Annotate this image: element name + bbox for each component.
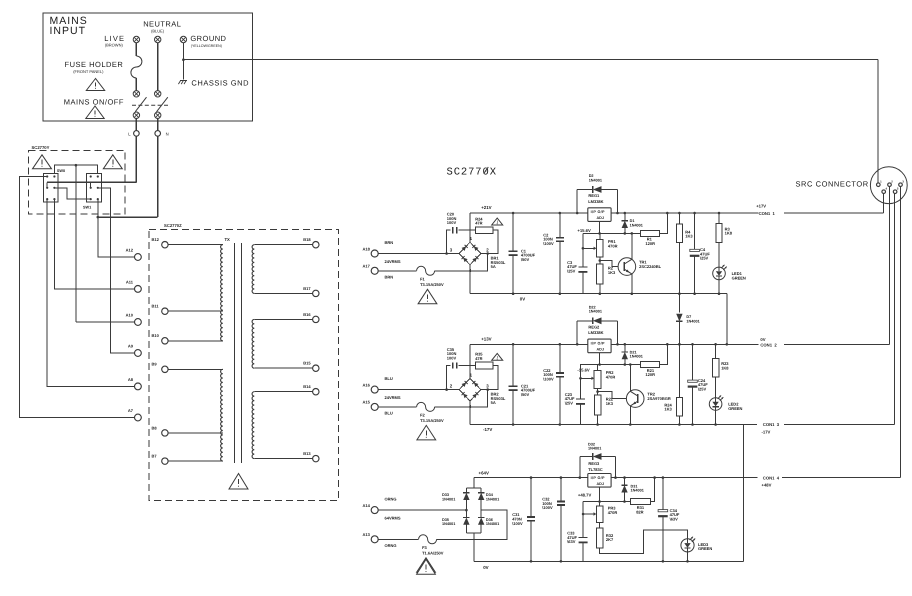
potentiometer PR2 470R xyxy=(579,370,601,388)
capacitor C2 100N xyxy=(556,212,564,295)
warning triangle fuse holder xyxy=(86,79,104,91)
wire bridge + to rail xyxy=(469,344,471,378)
terminal LIVE xyxy=(133,36,139,42)
wire B16 to secondary 2 top xyxy=(254,318,312,320)
terminal A13 xyxy=(371,536,378,543)
wire SW0 top-left to A7 xyxy=(19,176,134,417)
svg-text:A8: A8 xyxy=(128,377,134,382)
label C4 47UF \25V xyxy=(700,247,710,261)
switch terminal neutral bottom xyxy=(155,112,161,118)
label R2 1K3 xyxy=(608,266,616,275)
terminal B18 xyxy=(313,242,319,248)
terminal A15 xyxy=(371,403,378,410)
label TR1 2SC2240BL xyxy=(639,260,662,270)
wire node corner to C3 xyxy=(582,233,584,267)
potentiometer PR1 470R xyxy=(582,239,604,257)
capacitor C32 100N xyxy=(557,476,565,562)
svg-text:SC2770X: SC2770X xyxy=(447,167,497,179)
svg-text:1N4001: 1N4001 xyxy=(442,497,455,501)
wire base jog from divider xyxy=(600,261,618,267)
svg-text:470R: 470R xyxy=(608,243,618,248)
terminal B17 xyxy=(313,290,319,296)
wire SW0 bottom-right to A11 xyxy=(54,199,134,289)
svg-text:2SC2240BL: 2SC2240BL xyxy=(639,264,662,269)
svg-text:B12: B12 xyxy=(152,237,160,242)
label D2 1N4001 xyxy=(589,174,602,182)
wire R32 to LED3 jog xyxy=(600,530,688,553)
warning triangle selector right xyxy=(103,155,122,169)
label F1 T3.15A/250V xyxy=(420,276,444,287)
resistor R24 1K3 xyxy=(677,343,683,426)
wire pot to R2 xyxy=(599,257,601,264)
resistor R24 xyxy=(476,227,494,234)
svg-text:1N4001: 1N4001 xyxy=(486,497,499,501)
wire phantom 0V to CON3 riser xyxy=(743,425,745,562)
label PR2 470R xyxy=(606,370,616,379)
svg-text:\25V: \25V xyxy=(565,400,574,405)
bridge rectifier BR2 xyxy=(459,378,481,401)
terminal A14 xyxy=(371,507,378,514)
label R24 47R xyxy=(475,216,483,225)
svg-text:ADJ: ADJ xyxy=(597,347,604,351)
svg-text:I/P O/P: I/P O/P xyxy=(591,341,605,345)
svg-text:1N4001: 1N4001 xyxy=(686,319,699,323)
label C35 100N 100V xyxy=(447,347,457,361)
terminal A17 xyxy=(371,267,378,274)
diode D22 bypass xyxy=(576,317,619,345)
wire B7 to primary 2 bottom xyxy=(168,460,223,462)
svg-text:GREEN: GREEN xyxy=(728,406,742,411)
wire R3 to LED1 xyxy=(718,242,720,267)
switch blade neutral xyxy=(157,97,168,112)
wire A17 to fuse xyxy=(378,270,416,272)
svg-text:SW1: SW1 xyxy=(83,206,91,210)
svg-text:SC2770Z: SC2770Z xyxy=(164,223,182,228)
svg-text:B13: B13 xyxy=(303,451,311,456)
wire A14 to rectifier mid left xyxy=(378,509,466,511)
winding secondary 1 xyxy=(252,245,254,294)
wire N junction to SW1 xyxy=(98,216,158,218)
wire snubber cap to resistor xyxy=(459,365,476,367)
svg-text:A17: A17 xyxy=(363,264,371,269)
svg-text:-17V: -17V xyxy=(762,429,771,434)
wire REG3 ADJ pin down xyxy=(599,487,601,501)
svg-text:(BLUE): (BLUE) xyxy=(151,29,165,34)
connector pin 1 xyxy=(877,180,883,187)
wire LED1 to rail xyxy=(718,280,720,294)
wire collector to node xyxy=(629,365,631,392)
wire ADJ pin down xyxy=(599,353,601,365)
svg-text:\63V: \63V xyxy=(567,539,576,544)
label D21 1N4001 xyxy=(630,350,643,358)
svg-text:-17V: -17V xyxy=(483,427,492,432)
label R24 1K3 xyxy=(664,402,672,411)
svg-text:-15.6V: -15.6V xyxy=(577,368,590,373)
svg-text:5A: 5A xyxy=(491,400,496,405)
wire LED3 to 0V rail xyxy=(687,552,689,561)
wire snubber left leg xyxy=(447,230,451,253)
resistor R3 1K8 xyxy=(716,212,722,243)
label R31 82R xyxy=(636,505,645,514)
regulator REG2 body xyxy=(588,339,611,353)
resistor R22 xyxy=(594,395,600,415)
wire ADJ pin down xyxy=(599,221,601,233)
svg-text:B17: B17 xyxy=(303,286,311,291)
terminal B7 xyxy=(162,458,168,464)
chassis ground symbol xyxy=(178,81,187,85)
terminal A10 xyxy=(135,319,142,326)
terminal NEUTRAL xyxy=(155,36,161,42)
label TR2 2SA970BGR xyxy=(647,392,670,402)
wire node to PR3 xyxy=(599,502,601,506)
svg-text:GREEN: GREEN xyxy=(698,546,712,551)
wire SW1 middle to A9 xyxy=(98,188,135,353)
svg-text:\100V: \100V xyxy=(543,241,554,246)
wire channel1 0V to CON2 rail xyxy=(727,294,759,345)
svg-text:REG2: REG2 xyxy=(588,324,600,329)
svg-text:T3.15A/250V: T3.15A/250V xyxy=(420,282,444,287)
wire switch to N terminal xyxy=(157,118,159,130)
diode D35 1N4001 xyxy=(463,510,469,533)
wire bridge - to 0V rail xyxy=(469,265,471,294)
svg-text:+15.6V: +15.6V xyxy=(577,228,591,233)
svg-text:TL783C: TL783C xyxy=(588,467,603,472)
terminal B9 xyxy=(162,366,168,372)
label CON1 3 -17V xyxy=(762,422,780,435)
svg-text:\100V: \100V xyxy=(542,505,553,510)
wire node corner to C23 xyxy=(581,365,583,400)
LED LED3 GREEN xyxy=(681,537,695,552)
svg-text:A9: A9 xyxy=(128,344,134,349)
svg-text:1N4001: 1N4001 xyxy=(589,178,602,182)
label C1 4700UF \50V xyxy=(521,248,536,262)
terminal B14 xyxy=(313,389,319,395)
terminal B8 xyxy=(162,430,168,436)
svg-text:N: N xyxy=(166,131,169,136)
svg-text:(BROWN): (BROWN) xyxy=(105,43,124,48)
wire +64V rail xyxy=(474,477,758,479)
bridge rectifier BR1 xyxy=(459,242,481,265)
resistor R23 1K8 xyxy=(712,343,718,377)
svg-text:1K8: 1K8 xyxy=(725,231,733,236)
label R21 120R xyxy=(645,368,655,377)
svg-text:B16: B16 xyxy=(303,312,311,317)
svg-text:B7: B7 xyxy=(152,454,158,459)
svg-text:BRN: BRN xyxy=(385,274,394,279)
capacitor C22 100N xyxy=(556,343,564,426)
diode D21 xyxy=(622,343,628,366)
diode D7 1N4001 xyxy=(676,294,682,346)
fuse F2 xyxy=(417,402,435,411)
wire bridge - to 0V rail xyxy=(469,401,471,425)
wire CON1 2 to connector pin 2 xyxy=(784,343,890,345)
svg-text:1N4001: 1N4001 xyxy=(589,310,602,314)
svg-text:A12: A12 xyxy=(126,248,134,253)
wire B17 to secondary 1 bottom xyxy=(254,292,312,294)
svg-text:A16: A16 xyxy=(363,382,371,387)
wire A17 fuse to bridge ac2 xyxy=(435,254,488,271)
wire SW0 bottom-left to A8 xyxy=(47,199,134,386)
wire CON1 4 to connector pin 3 xyxy=(782,477,901,479)
wire B9 to primary 2 top xyxy=(168,368,223,370)
svg-text:I/P O/P: I/P O/P xyxy=(591,210,605,214)
resistor R2 xyxy=(597,264,603,284)
wire return rail xyxy=(470,424,727,426)
capacitor C3 47UF xyxy=(578,267,587,294)
svg-text:B8: B8 xyxy=(152,425,158,430)
svg-text:\25V: \25V xyxy=(567,268,576,273)
label C33 47UF \63V xyxy=(567,531,577,545)
svg-text:B15: B15 xyxy=(303,361,311,366)
capacitor C23 47UF xyxy=(576,399,585,425)
capacitor C31 470N xyxy=(527,476,535,562)
wire B18 to secondary 1 top xyxy=(254,244,312,246)
label PR1 470R xyxy=(608,239,618,248)
svg-text:F3: F3 xyxy=(422,545,427,550)
svg-text:\50V: \50V xyxy=(521,257,530,262)
label D36 1N4001 xyxy=(486,518,499,526)
svg-text:5A: 5A xyxy=(491,264,496,269)
wire R22 to rail xyxy=(597,415,599,425)
warning triangle channel 3 xyxy=(417,559,436,574)
wire positive rail +21V xyxy=(470,212,758,214)
winding secondary 3 xyxy=(252,392,254,459)
svg-text:MAINS ON/OFF: MAINS ON/OFF xyxy=(64,98,124,107)
wire R31 to rail xyxy=(650,478,654,502)
svg-text:NEUTRAL: NEUTRAL xyxy=(143,19,181,28)
capacitor C34 47UF xyxy=(658,476,668,562)
connector pin 5 xyxy=(893,187,899,194)
svg-text:2K7: 2K7 xyxy=(606,537,614,542)
label LED2 GREEN xyxy=(728,402,742,411)
regulator REG3 body xyxy=(588,474,611,488)
label R4 1K3 xyxy=(685,229,693,238)
wire neutral terminal to switch xyxy=(157,43,159,91)
winding primary 2 xyxy=(221,369,223,461)
label LIVE (BROWN) xyxy=(104,34,125,48)
wire live terminal to fuse xyxy=(135,43,137,56)
svg-text:1K3: 1K3 xyxy=(606,401,614,406)
svg-text:+48V: +48V xyxy=(762,482,772,487)
wire selector row SW0 to L xyxy=(47,181,136,183)
svg-text:1K3: 1K3 xyxy=(664,407,672,412)
svg-text:120R: 120R xyxy=(645,372,655,377)
switch block SW0 xyxy=(43,174,57,203)
node snubber tap xyxy=(445,252,448,255)
resistor R31 82R xyxy=(631,499,651,505)
svg-text:\50V: \50V xyxy=(521,392,530,397)
terminal A12 xyxy=(135,254,142,261)
wire A15 to fuse xyxy=(378,406,416,408)
label LED1 GREEN xyxy=(732,271,746,280)
label R3 1K8 xyxy=(725,226,733,235)
label MAINS INPUT xyxy=(50,15,88,37)
wire collector to node xyxy=(631,233,633,259)
terminal B12 xyxy=(162,242,168,248)
svg-text:CON1 2: CON1 2 xyxy=(760,342,777,347)
svg-text:+17V: +17V xyxy=(756,204,766,209)
label D35 1N4001 xyxy=(442,518,455,526)
terminal A11 xyxy=(135,286,142,293)
capacitor C24 47UF xyxy=(688,343,698,426)
LED LED2 GREEN xyxy=(709,395,723,410)
svg-text:F2: F2 xyxy=(420,412,425,417)
wire R21 to rail xyxy=(659,344,667,364)
svg-text:470R: 470R xyxy=(608,510,618,515)
wire node to pot xyxy=(597,365,599,371)
label REG3 TL783C xyxy=(588,461,603,472)
terminal L xyxy=(134,131,140,137)
transformer core xyxy=(234,243,236,463)
svg-text:CON1 1: CON1 1 xyxy=(759,211,776,216)
selector dashed box SC2770Y xyxy=(28,151,125,215)
resistor R35 xyxy=(476,362,494,369)
capacitor C35 xyxy=(453,362,457,368)
label GROUND (YELLOW/GREEN) xyxy=(190,34,226,48)
fuse F1 xyxy=(417,266,435,275)
svg-text:+21V: +21V xyxy=(481,205,491,210)
svg-text:ORNG: ORNG xyxy=(385,543,397,548)
label D22 1N4001 xyxy=(589,305,602,313)
switch block SW1 xyxy=(87,174,102,203)
label C24 47UF \25V xyxy=(698,378,708,392)
label C31 470N \100V xyxy=(512,512,523,526)
warning triangle transformer xyxy=(229,474,248,490)
svg-text:A13: A13 xyxy=(363,532,371,537)
wire base jog from divider xyxy=(598,392,627,399)
resistor R21 120R xyxy=(641,362,660,368)
winding secondary 2 xyxy=(252,319,254,368)
svg-text:\100V: \100V xyxy=(543,376,554,381)
svg-text:1N4001: 1N4001 xyxy=(442,522,455,526)
rectifier bus bottom xyxy=(466,532,481,534)
capacitor C20 xyxy=(453,227,457,233)
wire pot to R22 xyxy=(597,388,599,395)
diode D31 1N4001 xyxy=(621,476,627,503)
svg-text:\100V: \100V xyxy=(512,521,523,526)
diode D2 bypass xyxy=(576,186,619,214)
node snubber tap xyxy=(445,388,448,391)
label C34 47UF \63V xyxy=(670,508,680,522)
svg-text:100V: 100V xyxy=(447,220,457,225)
svg-text:24VRMS: 24VRMS xyxy=(385,259,401,264)
terminal N xyxy=(155,131,161,137)
svg-text:BLU: BLU xyxy=(385,376,393,381)
svg-text:(FRONT PANEL): (FRONT PANEL) xyxy=(73,69,104,74)
terminal A9 xyxy=(135,350,142,357)
svg-text:120R: 120R xyxy=(645,241,655,246)
terminal B13 xyxy=(313,455,319,461)
label D1 1N4001 xyxy=(630,219,643,227)
wire switch to L terminal xyxy=(135,118,137,130)
svg-text:0V: 0V xyxy=(483,565,488,570)
svg-text:A14: A14 xyxy=(363,503,371,508)
switch terminal live bottom xyxy=(133,112,139,118)
resistor R32 2K7 xyxy=(597,528,603,548)
label D7 1N4001 xyxy=(686,315,699,323)
svg-text:FUSE HOLDER: FUSE HOLDER xyxy=(65,60,124,69)
node jumper tap A10 xyxy=(75,164,78,167)
wire rectifier mid right jog to fuse xyxy=(437,510,507,539)
connector pin 3 xyxy=(899,180,905,187)
label F3 T1.6A/250V xyxy=(422,545,444,556)
label +17V CON1 1 xyxy=(756,204,775,216)
svg-text:B14: B14 xyxy=(303,384,311,389)
svg-text:GROUND: GROUND xyxy=(190,34,226,43)
label F2 T3.15A/250V xyxy=(420,412,444,423)
svg-text:+13V: +13V xyxy=(481,337,491,342)
svg-text:BRN: BRN xyxy=(385,240,394,245)
svg-text:1K3: 1K3 xyxy=(685,234,693,239)
svg-text:64VRMS: 64VRMS xyxy=(385,515,401,520)
svg-text:TX: TX xyxy=(225,237,231,242)
wire R23 to LED2 xyxy=(715,377,717,398)
node rectifier mid left xyxy=(465,509,468,512)
svg-text:A7: A7 xyxy=(128,408,134,413)
label C23 47UF \25V xyxy=(565,392,575,406)
wire N down to junction xyxy=(157,136,159,217)
wire R2 to rail xyxy=(599,284,601,294)
wire node to pot xyxy=(599,233,601,239)
svg-text:B9: B9 xyxy=(152,362,158,367)
wire B14 to secondary 3 top xyxy=(254,391,312,393)
wire snubber cap to resistor xyxy=(459,229,476,231)
svg-text:1N4001: 1N4001 xyxy=(631,489,644,493)
svg-text:T3.15A/250V: T3.15A/250V xyxy=(420,418,444,423)
label NEUTRAL (BLUE) xyxy=(143,19,181,33)
svg-text:INPUT: INPUT xyxy=(50,25,87,37)
terminal A7 xyxy=(135,414,142,421)
svg-text:T1.6A/250V: T1.6A/250V xyxy=(422,550,444,555)
connector SRC body xyxy=(870,167,907,204)
wire jumper tap down to A10 xyxy=(75,165,77,322)
fuse F3 xyxy=(419,535,437,544)
svg-text:LM338K: LM338K xyxy=(588,199,603,204)
svg-text:A15: A15 xyxy=(363,400,371,405)
svg-text:1N4001: 1N4001 xyxy=(630,355,643,359)
winding primary 1 xyxy=(221,245,223,341)
wire PR3 to R32 xyxy=(599,523,601,528)
switch blade live xyxy=(135,97,146,112)
wire emitter to rail xyxy=(631,274,633,294)
wire A18 to bridge ac1 xyxy=(378,253,459,255)
warning triangle fuse F1 xyxy=(418,289,437,304)
svg-text:B11: B11 xyxy=(152,304,160,309)
node ground junction xyxy=(182,58,185,61)
svg-text:SW0: SW0 xyxy=(57,169,65,173)
svg-text:B10: B10 xyxy=(152,333,160,338)
terminal B16 xyxy=(313,316,319,322)
svg-text:\63V: \63V xyxy=(670,517,679,522)
capacitor C33 47UF xyxy=(579,502,588,562)
wire SW0 middle link to SW1 bottom xyxy=(54,188,90,199)
wire snubber left leg xyxy=(447,366,451,390)
svg-text:47R: 47R xyxy=(475,356,482,361)
terminal A8 xyxy=(135,383,142,390)
svg-text:(YELLOW/GREEN): (YELLOW/GREEN) xyxy=(191,44,222,48)
node bridge ac2 join xyxy=(486,252,489,255)
label C20 100N 100V xyxy=(447,212,457,226)
svg-text:1K8: 1K8 xyxy=(721,365,729,370)
label C22 100N \100V xyxy=(543,368,554,382)
svg-text:I/P O/P: I/P O/P xyxy=(591,476,605,480)
label FUSE HOLDER (FRONT PANEL) xyxy=(65,60,124,74)
wire B12 to primary 1 top xyxy=(168,244,223,246)
svg-text:SRC CONNECTOR: SRC CONNECTOR xyxy=(796,179,869,188)
diode D36 1N4001 xyxy=(478,510,484,533)
capacitor C1 4700UF xyxy=(509,212,518,295)
wire B11 tap primary 1 xyxy=(168,310,223,312)
